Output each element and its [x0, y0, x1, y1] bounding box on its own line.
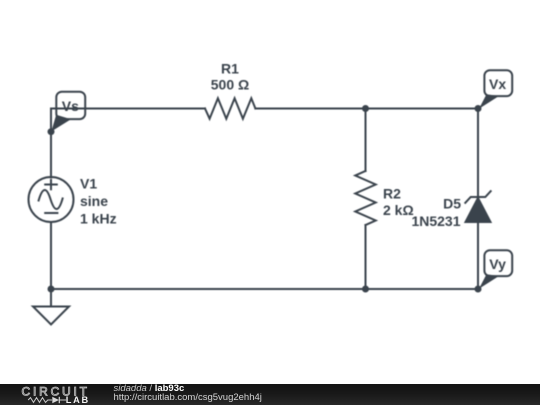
voltage source V1 [29, 177, 74, 222]
svg-text:R1: R1 [221, 61, 239, 77]
svg-text:R2: R2 [383, 186, 401, 202]
svg-text:500 Ω: 500 Ω [211, 77, 249, 93]
wire top left segment [51, 108, 205, 110]
node flag Vs [48, 92, 86, 136]
ground [33, 289, 69, 325]
wire bottom [51, 288, 478, 290]
svg-text:Vy: Vy [489, 256, 506, 272]
footer bar [0, 384, 540, 405]
wire middle vertical lower [365, 225, 367, 289]
svg-text:1 kHz: 1 kHz [80, 210, 117, 226]
resistor R2 [355, 171, 375, 225]
svg-text:LAB: LAB [66, 395, 90, 405]
node flag Vy [475, 250, 513, 292]
junction node at ground [48, 286, 55, 293]
CircuitLab logo [0, 384, 110, 405]
svg-text:Vx: Vx [489, 76, 506, 92]
wire left vertical lower [50, 222, 52, 289]
svg-text:D5: D5 [443, 196, 461, 212]
svg-text:sine: sine [80, 193, 108, 209]
wire right vertical lower [477, 222, 479, 289]
wire left vertical upper [50, 109, 52, 178]
zener diode D5 [465, 191, 490, 222]
node flag Vx [475, 70, 513, 112]
junction node at R2 top [362, 105, 369, 112]
wire middle vertical upper [365, 109, 367, 172]
junction node at R2 bottom [362, 286, 369, 293]
attribution text [114, 384, 262, 403]
resistor R1 [205, 98, 255, 118]
svg-text:2 kΩ: 2 kΩ [383, 202, 414, 218]
svg-text:Vs: Vs [62, 98, 79, 114]
wire right vertical upper [477, 109, 479, 198]
svg-text:V1: V1 [80, 175, 97, 191]
wire top right segment [255, 108, 478, 110]
svg-text:1N5231: 1N5231 [411, 213, 460, 229]
